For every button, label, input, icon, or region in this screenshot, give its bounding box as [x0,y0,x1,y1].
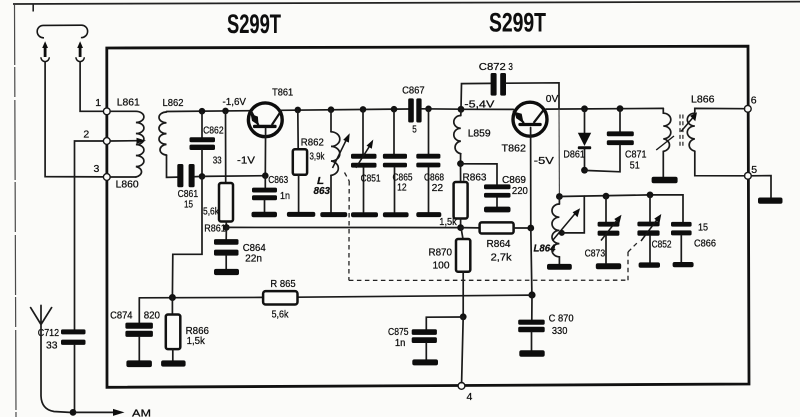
svg-text:C866: C866 [694,237,716,249]
tap arrow from terminal 2 into L861 [110,138,146,144]
wire rail into T862 emitter [461,108,513,110]
svg-text:33: 33 [46,339,58,351]
svg-text:51: 51 [630,159,640,171]
wire L866 secondary top to terminal 6 [695,108,745,113]
ground under C851 [351,212,378,217]
node C868 top [425,106,432,113]
node C852 top [647,192,654,199]
svg-text:-5V: -5V [534,155,554,167]
resistor R863 [439,164,486,228]
wire C861 to node [195,175,202,177]
svg-text:1: 1 [95,97,101,109]
svg-text:S299T: S299T [227,9,281,39]
ground under R862 [287,212,315,217]
dashed tuning gang link [345,173,638,281]
node C870 top [528,291,535,298]
svg-text:1,5k: 1,5k [439,216,457,228]
svg-text:5: 5 [751,164,757,176]
node C871 top [617,105,624,112]
svg-text:C872: C872 [479,61,506,73]
node D861 bottom [581,167,588,174]
node C862 top [199,108,206,115]
svg-text:3,9k: 3,9k [310,151,326,163]
inductor L862 [159,97,184,155]
svg-text:AM: AM [132,408,151,417]
capacitor C852 (trimmer) [637,195,671,262]
svg-text:220: 220 [512,185,528,197]
capacitor C863 [252,174,290,212]
svg-text:C875: C875 [388,326,409,338]
node C865 top [391,106,398,113]
wire long bias line R861 to R863 [226,226,460,228]
svg-text:L866: L866 [691,93,715,105]
svg-text:L859: L859 [468,127,491,139]
node L863 top [328,106,335,113]
svg-text:C874: C874 [110,309,133,321]
wire L866 secondary bottom to terminal 5 [695,151,745,176]
ground under C852 [639,262,660,267]
svg-text:6: 6 [751,95,757,107]
svg-text:3: 3 [94,163,100,175]
node C851 top [360,106,367,113]
wire 0V feed down to L864 node [558,109,560,197]
node L859 bottom [457,160,464,167]
ground under C874 [126,360,151,367]
node T862 base / R864 [527,225,534,232]
capacitor C875 [388,317,463,359]
node T861 base [262,172,269,179]
wire C712 to AM node [74,345,76,413]
wire R865 line [139,295,532,298]
resistor R866 [166,298,209,361]
node L864 tap [559,230,565,236]
svg-text:R861: R861 [204,222,226,234]
svg-text:33: 33 [213,154,222,166]
wire node to lower-left path [172,176,202,297]
svg-text:R 865: R 865 [270,278,295,290]
svg-text:100: 100 [433,259,450,271]
ground under L864 [547,264,572,270]
inductor L864 (variable, tapped) [534,197,581,264]
ground under C875 [412,359,438,365]
node R866 top [169,294,176,301]
resistor R870 [429,228,471,317]
capacitor C871 [585,109,647,172]
AM antenna symbol [31,305,70,412]
svg-text:L864: L864 [534,243,556,255]
ground under C865 [383,212,409,217]
capacitor C870 [518,295,574,350]
page border top [13,2,800,4]
svg-text:C873: C873 [585,247,606,259]
capacitor C712 [38,327,86,351]
svg-text:5,6k: 5,6k [203,206,220,218]
terminal 5 external ground wire [751,176,771,198]
capacitor C874 [110,298,160,361]
capacitor C869 [461,164,529,207]
terminal 5 [745,172,752,179]
wire 0V rail T862 collector to L866 [546,107,663,110]
svg-text:12: 12 [397,182,407,194]
capacitor C865 [383,109,413,212]
node D861 top [581,105,588,112]
node R861 top [222,108,229,115]
svg-text:5: 5 [412,124,417,136]
svg-text:15: 15 [698,221,708,233]
node C862/C861 junction [199,173,206,180]
wire terminal 2 to C712 column [75,141,104,329]
capacitor C867 (series in rail) [402,85,425,136]
page border tick [32,4,34,12]
terminal 1 [103,108,110,115]
svg-text:C862: C862 [203,124,224,136]
antenna plug symbol [37,25,87,61]
svg-text:2,7k: 2,7k [491,251,513,263]
svg-text:R862: R862 [301,137,324,149]
ground bar at terminal 5 [758,198,783,204]
ground under C873 [596,263,621,269]
capacitor C873 (trimmer) [585,196,622,263]
page border left [15,5,17,417]
inductor L859 [454,109,491,163]
svg-text:1n: 1n [395,337,406,349]
ground under C869 [484,207,511,213]
wire antenna right leg to terminal 1 [80,62,104,112]
wire R864 node down to C870 [531,228,532,295]
module box outline [107,46,749,387]
svg-text:R870: R870 [429,246,453,258]
ground under L863 [320,212,347,217]
wire node down to terminal 4 [462,317,464,383]
ground under C864 [214,269,239,275]
svg-text:C863: C863 [268,174,288,186]
svg-text:-1V: -1V [237,154,255,166]
capacitor C851 (variable) [351,109,381,212]
transistor T862 [502,102,548,154]
terminal 3 [103,174,110,181]
node L864 top [556,193,563,200]
terminal 6 [744,105,751,112]
wire -1,6V rail left section [167,110,251,113]
resistor R864 [461,222,531,263]
node AM junction [70,409,77,416]
node -5,4V junction [458,106,465,113]
svg-text:-1,6V: -1,6V [223,96,247,108]
ground under C870 [519,350,544,357]
inductor L863 (variable) [314,110,350,212]
svg-text:15: 15 [184,199,193,211]
wire base line node to T861 base node [202,175,265,178]
capacitor C862 [190,111,224,176]
svg-text:0V: 0V [546,93,559,105]
svg-text:L860: L860 [116,179,139,191]
resistor R865 [263,278,297,321]
svg-text:C867: C867 [402,85,425,97]
ground under R866 [161,360,186,366]
transformer L866 [656,93,714,176]
wire -1,6V rail right of T861 [281,109,409,110]
svg-text:R864: R864 [487,238,511,250]
svg-text:1n: 1n [280,190,290,202]
wire L864 tap to detector line [562,196,585,233]
node R861 bottom [223,224,230,231]
ground under C868 [416,212,441,217]
ground under C866 [673,262,694,267]
capacitor C864 [214,227,266,268]
inductor L861/L860 antenna coil [110,96,144,190]
svg-text:5,6k: 5,6k [272,309,289,321]
terminal 4 [458,383,465,390]
ground under L866 primary [652,177,678,183]
svg-text:1,5k: 1,5k [187,335,206,347]
wire T861 base down [264,128,266,175]
svg-text:820: 820 [144,309,160,321]
capacitor C868 [416,109,444,212]
svg-text:22n: 22n [245,253,262,265]
node R870 bottom / C875 [460,313,467,320]
node R863 bottom [457,224,464,231]
capacitor C861 (series) [177,164,198,211]
svg-text:22: 22 [432,182,444,194]
capacitor C866 [671,221,716,262]
resistor R862 [293,110,325,212]
svg-text:T862: T862 [502,142,527,154]
ground under C863 [252,212,278,218]
wire rail C867 to -5,4V node [422,108,461,110]
node R862 top [295,107,302,114]
svg-text:3: 3 [508,61,513,73]
terminal 2 [103,138,110,145]
svg-text:2: 2 [83,129,89,141]
svg-text:C852: C852 [652,238,672,250]
node C873 top [603,193,610,200]
resistor R861 [203,111,233,234]
svg-text:D861: D861 [563,148,585,160]
capacitor C872 [461,61,559,110]
wire detector line y196 [559,195,683,222]
transistor T861 [248,86,293,136]
svg-text:L862: L862 [163,97,184,109]
svg-text:330: 330 [552,325,568,337]
svg-text:863: 863 [314,185,331,197]
wire antenna left leg to terminal 3 [45,62,104,177]
svg-text:C851: C851 [361,173,381,185]
svg-text:C 870: C 870 [549,312,574,324]
svg-text:T861: T861 [272,86,293,98]
svg-text:4: 4 [467,391,473,403]
svg-text:R863: R863 [463,172,487,184]
svg-text:S299T: S299T [489,8,546,38]
svg-text:L861: L861 [117,96,140,108]
AM output arrow [76,408,151,417]
wire T862 base down [530,128,532,229]
wire L862 bottom to C861 [167,155,178,177]
diode D861 [563,109,591,170]
